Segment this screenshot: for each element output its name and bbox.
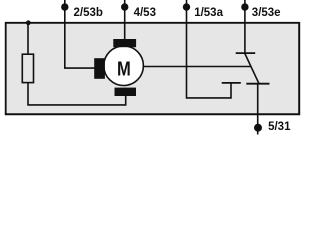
relay housing box [5,22,299,114]
motor top brush [113,39,136,47]
motor bottom brush [115,88,137,96]
svg-text:5/31: 5/31 [268,121,291,133]
wire 2/53b to motor left brush [65,23,95,68]
motor M1 body [104,46,144,86]
switch arm (movable contact) [245,53,259,83]
terminal 4/53 [121,0,128,40]
resistor R [22,54,33,82]
motor left brush [94,58,105,79]
svg-text:4/53: 4/53 [134,7,156,19]
contact bar 3/53e [236,52,256,54]
svg-text:2/53b: 2/53b [74,7,103,19]
wire 1/53a to lower-left contact [187,12,232,98]
terminal 1/53a [183,0,190,12]
terminal 2/53b [61,0,68,23]
svg-text:1/53a: 1/53a [194,7,223,19]
terminal 5/31 [254,124,262,132]
terminal 3/53e [241,0,248,12]
wire motor right to switch arm [143,66,250,68]
wire resistor to bottom rail [28,83,126,105]
wire top edge to resistor [27,23,29,55]
contact bar 1/53a [222,82,241,84]
contact bar 5/31 [246,83,269,85]
svg-text:3/53e: 3/53e [252,7,281,19]
svg-text:M: M [117,58,131,80]
junction dot on housing top edge [26,20,31,25]
wire 5/31 contact to terminal [257,84,259,135]
wire 3/53e to top contact [244,12,246,53]
